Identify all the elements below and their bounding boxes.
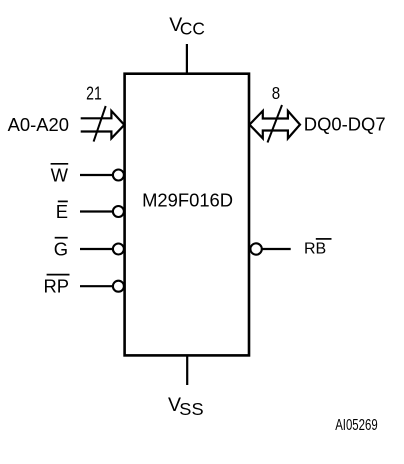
svg-text:E: E xyxy=(56,201,68,222)
svg-text:W: W xyxy=(51,165,69,186)
svg-text:M29F016D: M29F016D xyxy=(142,190,233,211)
svg-text:21: 21 xyxy=(86,84,102,104)
svg-text:RB: RB xyxy=(304,240,326,257)
svg-text:RP: RP xyxy=(43,276,69,297)
svg-text:CC: CC xyxy=(180,19,205,39)
svg-text:A0-A20: A0-A20 xyxy=(8,114,69,135)
svg-text:AI05269: AI05269 xyxy=(335,417,378,434)
svg-text:DQ0-DQ7: DQ0-DQ7 xyxy=(304,114,386,135)
svg-text:G: G xyxy=(54,239,68,260)
svg-text:SS: SS xyxy=(179,399,203,419)
svg-text:8: 8 xyxy=(272,83,280,104)
